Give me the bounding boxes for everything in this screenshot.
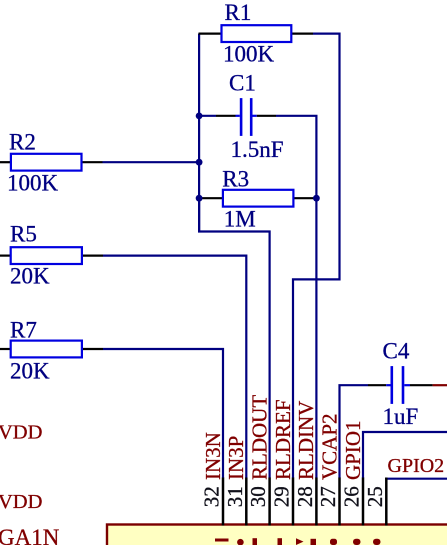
wire R5 to pin31 xyxy=(103,256,246,478)
resistor R7 xyxy=(0,318,103,384)
pin 28 line xyxy=(315,478,318,526)
svg-text:IN3N: IN3N xyxy=(201,432,225,480)
svg-text:C4: C4 xyxy=(383,339,410,364)
svg-text:32: 32 xyxy=(200,486,224,507)
R7 body xyxy=(11,341,82,358)
svg-text:VCAP2: VCAP2 xyxy=(317,413,341,480)
C4 left lead xyxy=(368,384,386,386)
R3 left lead xyxy=(200,197,223,199)
resistor R1 xyxy=(199,0,314,66)
wire pin25 to right edge xyxy=(386,478,447,480)
svg-text:27: 27 xyxy=(316,486,340,507)
wire pin26 to right edge xyxy=(363,432,447,478)
IC U2 inside text (clipped glyph tops) xyxy=(215,538,381,545)
wire R2 to bus xyxy=(103,161,200,163)
wire left vertical bus node xyxy=(198,34,200,232)
C4 left plate xyxy=(391,366,394,404)
svg-text:R7: R7 xyxy=(10,318,37,343)
junction node R2 right xyxy=(196,159,203,166)
pin 30 xyxy=(246,395,271,526)
junction node R3 left xyxy=(196,195,203,202)
svg-text:20K: 20K xyxy=(10,358,50,383)
svg-text:29: 29 xyxy=(270,486,294,507)
C1 left plate xyxy=(240,98,243,136)
R1 body xyxy=(222,25,292,42)
svg-text:RLDREF: RLDREF xyxy=(271,399,295,480)
R1 left lead xyxy=(199,32,222,34)
svg-text:IN3P: IN3P xyxy=(224,436,248,480)
svg-text:25: 25 xyxy=(363,486,387,507)
svg-text:100K: 100K xyxy=(223,41,275,66)
svg-text:R2: R2 xyxy=(9,130,36,155)
R2 body xyxy=(11,154,82,171)
pin 32 line xyxy=(222,478,225,526)
junction node C1 left xyxy=(196,113,203,120)
svg-text:R1: R1 xyxy=(225,0,252,25)
wire R1 right to pin29 xyxy=(293,34,340,478)
R3 right lead xyxy=(293,197,315,199)
resistor R2 xyxy=(0,130,103,196)
svg-text:1M: 1M xyxy=(224,206,256,231)
pin 27 xyxy=(316,413,341,525)
svg-text:VDD: VDD xyxy=(0,422,42,444)
C1 right lead xyxy=(253,115,257,117)
pin 28 xyxy=(293,401,318,526)
resistor R3 xyxy=(200,166,316,231)
R7 left lead xyxy=(0,348,11,350)
svg-text:30: 30 xyxy=(246,486,270,507)
R5 left lead xyxy=(0,255,11,257)
svg-text:RLDINV: RLDINV xyxy=(294,401,318,480)
pin 30 line xyxy=(268,478,271,526)
svg-text:26: 26 xyxy=(340,486,364,507)
wire maroon C4 right xyxy=(433,384,447,386)
pin 32 xyxy=(200,432,225,525)
R5 body xyxy=(11,247,82,264)
R3 body xyxy=(223,190,294,207)
svg-text:R5: R5 xyxy=(10,222,37,247)
pin 26 line xyxy=(362,478,365,526)
IC U2 body xyxy=(107,525,447,545)
svg-text:GPIO1: GPIO1 xyxy=(341,420,365,480)
C1 left lead xyxy=(216,115,236,117)
C1 right plate xyxy=(250,98,253,136)
svg-text:VDD: VDD xyxy=(0,491,42,513)
pin 31 line xyxy=(245,478,248,526)
pin 25 line xyxy=(385,478,388,526)
wire R3 left node to pin30 xyxy=(199,198,270,478)
svg-text:GA1N: GA1N xyxy=(0,525,60,545)
R7 right lead xyxy=(82,348,103,350)
pin 31 xyxy=(223,436,248,526)
R5 right lead xyxy=(82,255,103,257)
R2 left lead xyxy=(0,161,12,163)
C4 right plate xyxy=(402,366,405,404)
svg-text:R3: R3 xyxy=(222,166,249,191)
capacitor C4 xyxy=(368,339,433,430)
pin 26 xyxy=(340,420,365,525)
wire C4 left to pin27 xyxy=(340,385,369,478)
C4 right lead xyxy=(404,384,410,386)
svg-text:1.5nF: 1.5nF xyxy=(231,137,284,162)
svg-text:RLDOUT: RLDOUT xyxy=(247,395,271,480)
svg-text:C1: C1 xyxy=(229,71,256,96)
svg-text:31: 31 xyxy=(223,486,247,507)
junction node R3 right xyxy=(313,195,320,202)
svg-text:28: 28 xyxy=(293,486,317,507)
pin 27 line xyxy=(338,478,341,526)
pin 29 line xyxy=(292,478,295,526)
svg-text:100K: 100K xyxy=(7,170,59,195)
wire C1 left to bus xyxy=(200,115,217,117)
svg-text:20K: 20K xyxy=(10,264,50,289)
svg-text:GPIO2: GPIO2 xyxy=(388,455,445,477)
svg-text:1uF: 1uF xyxy=(383,404,419,429)
pin 29 xyxy=(270,399,295,525)
R2 right lead xyxy=(81,161,103,163)
wire R7 to pin32 xyxy=(103,349,223,478)
capacitor C1 xyxy=(200,71,284,162)
wire C1 right to pin28 xyxy=(276,116,316,478)
resistor R5 xyxy=(0,222,103,289)
R1 right lead xyxy=(291,32,313,34)
pin 25 xyxy=(363,478,387,526)
